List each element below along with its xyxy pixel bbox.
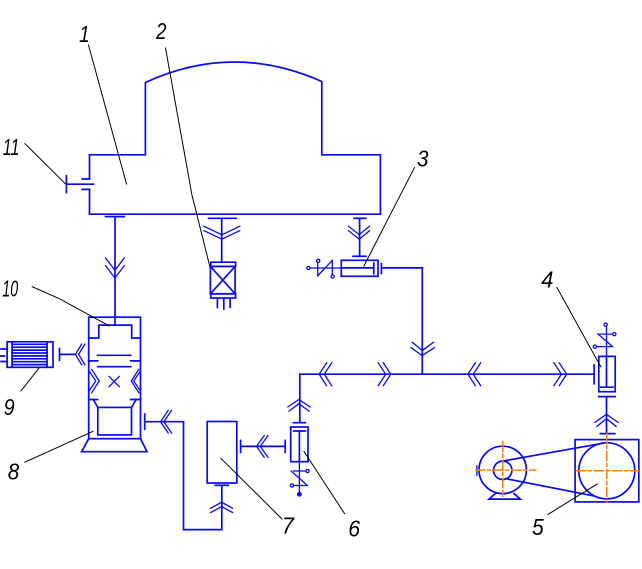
pump 5 motor circle: [479, 446, 526, 493]
leader 6: [304, 452, 345, 514]
leader 11: [25, 144, 66, 185]
pump lower stubs: [89, 399, 141, 401]
port flange middle: [209, 217, 237, 219]
gauge head 2: [210, 262, 235, 309]
svg-text:3: 3: [417, 145, 429, 171]
pump baffle plates: [89, 355, 141, 366]
leader 10: [32, 287, 109, 326]
pump inner right chevrons: [131, 369, 140, 392]
svg-text:2: 2: [155, 19, 167, 44]
tank 7 bottom flange: [215, 484, 228, 486]
manifold pipe: [300, 374, 594, 423]
manifold chevron a: [319, 363, 332, 386]
leader 4: [557, 288, 601, 367]
manifold chevron c: [468, 363, 481, 386]
svg-text:11: 11: [3, 135, 20, 160]
valve 4 bottom flange: [599, 397, 616, 434]
joint chevron below tank 7: [211, 502, 233, 512]
svg-text:9: 9: [4, 395, 15, 421]
motor shaft flange: [60, 349, 76, 361]
leader 7: [221, 458, 282, 519]
joint chevron above valve 6: [288, 400, 310, 412]
valve 3 right flange: [380, 264, 382, 274]
joint chevron above manifold junction: [411, 342, 434, 355]
diffusion pump body 8/10: [89, 317, 141, 439]
joint chevron between 7 and 6: [257, 436, 268, 458]
manifold chevron b: [378, 363, 391, 386]
valve 6 body: [291, 427, 308, 462]
blue tick on motor centerline: [476, 466, 478, 476]
svg-text:8: 8: [8, 458, 20, 484]
pump 8 outlet flange: [144, 414, 146, 429]
valve 4 left flange: [593, 365, 595, 384]
joint chevron on middle pipe: [204, 226, 240, 239]
pump inner left chevrons: [89, 369, 99, 392]
port flange left: [106, 216, 125, 218]
pipe tank 7 to pump 8: [145, 422, 222, 530]
chamber 1 outline: [90, 62, 381, 214]
pump 5 motor base: [489, 494, 520, 500]
svg-text:10: 10: [2, 277, 18, 302]
pipe chamber to valve 3: [359, 218, 361, 256]
valve 3 top flange: [353, 255, 366, 257]
motor 9: [0, 342, 53, 368]
pump 5 pulley circle: [494, 461, 512, 479]
pump 5 inlet flange: [600, 433, 615, 435]
centerline pump 5 horizontal: [476, 434, 639, 505]
centerline motor vertical: [502, 442, 504, 496]
centerline motor horizontal: [476, 469, 536, 471]
svg-text:6: 6: [348, 516, 361, 542]
valve 3 body: [341, 260, 378, 276]
pump base skirt: [82, 439, 147, 452]
leader 8: [25, 431, 93, 462]
manifold chevron d: [554, 363, 567, 386]
valve 6 left flange: [284, 440, 286, 452]
joint chevron on pump 8 outlet: [161, 410, 172, 433]
leader 9: [21, 368, 39, 391]
valve 3 electromagnetic actuator: [307, 259, 342, 278]
pipe tank 7 to valve 6: [241, 445, 285, 447]
port flange right: [354, 217, 366, 219]
valve 6 electromagnetic actuator: [290, 462, 309, 496]
pump inlet baffle hat: [89, 325, 141, 338]
svg-text:5: 5: [532, 514, 544, 540]
valve 6 top flange: [293, 422, 305, 424]
rotary pump 5 box: [575, 440, 639, 502]
pump boiler box: [93, 400, 136, 435]
leader 2: [166, 48, 210, 266]
tank 7 right flange: [240, 440, 242, 452]
joint chevron on right pipe: [349, 226, 370, 239]
joint chevron above pump 5: [595, 414, 618, 426]
svg-text:4: 4: [541, 267, 553, 293]
pump jet X mark: [109, 376, 119, 386]
belt drive: [505, 443, 603, 496]
pipe chamber to pump 10: [114, 217, 116, 326]
leader 5: [548, 484, 597, 514]
motor shaft chevron: [75, 344, 85, 365]
svg-text:1: 1: [79, 23, 90, 48]
valve 4 body: [599, 356, 615, 391]
tank 7: [207, 422, 237, 484]
leader 3: [364, 168, 415, 267]
centerline pump 5 vertical: [606, 434, 608, 505]
pipe valve 3 to manifold: [382, 268, 422, 374]
leader 1: [89, 45, 127, 184]
valve 4 electromagnetic actuator: [593, 323, 616, 356]
air inlet valve 11: [66, 176, 93, 193]
pipe chamber to gauge 2: [221, 218, 223, 262]
pump 5 rotor circle: [579, 443, 635, 499]
svg-text:7: 7: [282, 513, 296, 539]
joint chevron on left pipe: [106, 258, 125, 278]
